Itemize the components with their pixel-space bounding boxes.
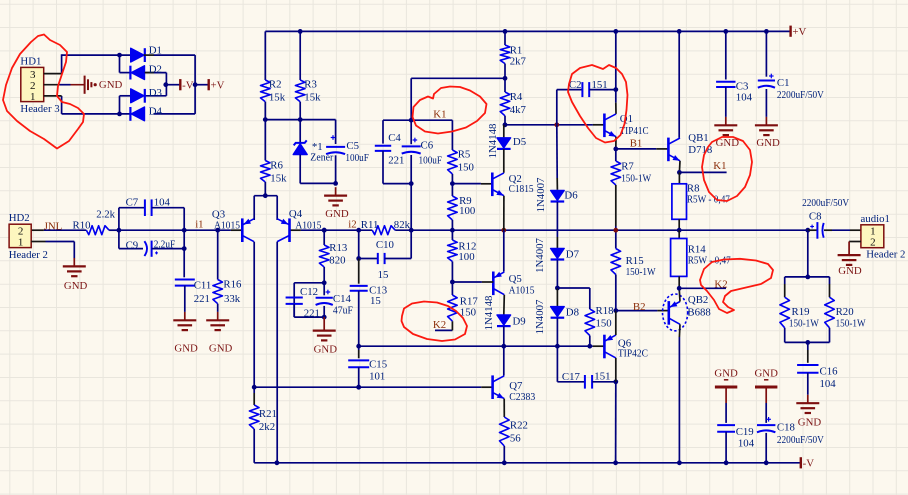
svg-text:15: 15 — [378, 269, 389, 281]
svg-text:K1: K1 — [433, 109, 446, 121]
svg-text:audio1: audio1 — [861, 213, 890, 225]
svg-text:C8: C8 — [809, 210, 822, 222]
svg-text:GND: GND — [99, 79, 123, 91]
svg-text:R4: R4 — [510, 91, 523, 103]
svg-text:B1: B1 — [630, 138, 643, 150]
svg-text:Header 2: Header 2 — [9, 249, 48, 261]
svg-text:2.2k: 2.2k — [96, 209, 115, 221]
svg-text:GND: GND — [714, 367, 738, 379]
svg-text:GND: GND — [798, 417, 822, 429]
svg-text:D6: D6 — [564, 190, 578, 202]
svg-text:47uF: 47uF — [333, 304, 353, 316]
svg-text:15k: 15k — [270, 172, 287, 184]
svg-text:150: 150 — [596, 317, 612, 329]
svg-text:+V: +V — [211, 80, 225, 92]
svg-text:QB2: QB2 — [688, 294, 708, 306]
svg-text:D3: D3 — [149, 87, 162, 99]
svg-text:104: 104 — [736, 91, 753, 103]
svg-text:GND: GND — [325, 208, 349, 220]
svg-text:2k7: 2k7 — [510, 55, 527, 67]
svg-text:C2383: C2383 — [509, 391, 535, 403]
svg-text:1N4007: 1N4007 — [534, 238, 546, 273]
svg-text:104: 104 — [738, 437, 755, 449]
svg-text:HD2: HD2 — [9, 212, 30, 224]
svg-text:D2: D2 — [149, 63, 162, 75]
svg-text:1N4007: 1N4007 — [535, 177, 547, 212]
svg-text:C10: C10 — [376, 239, 394, 251]
svg-text:2: 2 — [18, 225, 24, 237]
svg-text:C1: C1 — [777, 77, 790, 89]
svg-text:R5: R5 — [458, 148, 471, 160]
svg-text:HD1: HD1 — [20, 55, 41, 67]
svg-text:+V: +V — [792, 26, 806, 38]
svg-text:15: 15 — [370, 295, 381, 307]
svg-text:100: 100 — [458, 251, 474, 263]
svg-text:C18: C18 — [777, 421, 795, 433]
svg-text:GND: GND — [209, 342, 233, 354]
svg-text:150-1W: 150-1W — [836, 317, 867, 329]
svg-text:1: 1 — [30, 91, 36, 103]
svg-text:D9: D9 — [513, 316, 526, 328]
svg-text:A1015: A1015 — [509, 284, 535, 296]
svg-text:D7: D7 — [566, 249, 580, 261]
svg-text:150-1W: 150-1W — [789, 317, 820, 329]
svg-text:33k: 33k — [224, 293, 241, 305]
svg-text:C4: C4 — [388, 132, 401, 144]
svg-text:151: 151 — [592, 79, 608, 91]
svg-text:150: 150 — [458, 161, 474, 173]
svg-text:151: 151 — [594, 370, 610, 382]
svg-text:R11: R11 — [361, 219, 379, 231]
svg-text:2200uF/50V: 2200uF/50V — [777, 89, 824, 101]
svg-text:GND: GND — [838, 265, 862, 277]
svg-text:1N4007: 1N4007 — [534, 299, 546, 334]
svg-text:2: 2 — [870, 237, 876, 249]
svg-text:R6: R6 — [270, 160, 283, 172]
svg-text:JNL: JNL — [44, 220, 63, 232]
svg-text:i1: i1 — [195, 219, 203, 231]
svg-text:2200uF/50V: 2200uF/50V — [777, 434, 824, 446]
svg-text:221: 221 — [194, 293, 210, 305]
svg-text:104: 104 — [820, 378, 837, 390]
svg-text:R5W - 0,47: R5W - 0,47 — [687, 194, 731, 206]
svg-text:GND: GND — [314, 343, 338, 355]
svg-text:C6: C6 — [421, 139, 434, 151]
svg-text:B688: B688 — [687, 307, 710, 319]
svg-text:100uF: 100uF — [419, 154, 443, 166]
svg-text:R18: R18 — [596, 305, 614, 317]
svg-text:150-1W: 150-1W — [621, 173, 652, 185]
svg-text:GND: GND — [174, 342, 198, 354]
svg-text:820: 820 — [329, 254, 345, 266]
svg-text:B2: B2 — [633, 301, 646, 313]
svg-text:-V: -V — [803, 458, 815, 470]
svg-text:2200uF/50V: 2200uF/50V — [802, 197, 849, 209]
svg-text:R13: R13 — [329, 242, 347, 254]
svg-text:D1: D1 — [149, 45, 162, 57]
svg-text:C12: C12 — [300, 286, 318, 298]
svg-text:100uF: 100uF — [345, 152, 369, 164]
svg-text:56: 56 — [510, 432, 521, 444]
svg-text:C7: C7 — [126, 197, 139, 209]
svg-text:C11: C11 — [194, 279, 212, 291]
svg-text:TIP42C: TIP42C — [618, 348, 648, 360]
svg-text:C17: C17 — [562, 371, 581, 383]
svg-text:1: 1 — [18, 237, 24, 249]
svg-text:C16: C16 — [820, 365, 839, 377]
svg-text:221: 221 — [388, 154, 404, 166]
svg-text:R3: R3 — [304, 78, 317, 90]
svg-text:K2: K2 — [714, 278, 727, 290]
svg-text:GND: GND — [756, 137, 780, 149]
svg-text:GND: GND — [64, 280, 88, 292]
svg-text:C5: C5 — [346, 140, 359, 152]
svg-text:82k: 82k — [394, 219, 411, 231]
svg-text:-V: -V — [182, 80, 194, 92]
svg-text:Header 2: Header 2 — [866, 249, 905, 261]
svg-text:D4: D4 — [149, 106, 163, 118]
svg-text:K2: K2 — [433, 319, 446, 331]
svg-text:2.2uF: 2.2uF — [154, 238, 176, 250]
svg-text:R2: R2 — [269, 78, 282, 90]
svg-text:101: 101 — [369, 371, 385, 383]
svg-text:D5: D5 — [513, 136, 526, 148]
svg-text:R21: R21 — [259, 408, 277, 420]
svg-text:150-1W: 150-1W — [626, 266, 657, 278]
svg-text:2k2: 2k2 — [259, 421, 275, 433]
svg-text:GND: GND — [754, 367, 778, 379]
svg-text:K1: K1 — [713, 160, 726, 172]
svg-text:R16: R16 — [223, 278, 242, 290]
svg-text:A1015: A1015 — [214, 220, 240, 232]
svg-text:Header 3: Header 3 — [20, 103, 59, 115]
svg-text:15k: 15k — [269, 91, 286, 103]
svg-text:i2: i2 — [348, 219, 356, 231]
svg-text:C15: C15 — [369, 359, 387, 371]
svg-text:Q5: Q5 — [509, 273, 522, 285]
svg-text:C1815: C1815 — [509, 183, 534, 195]
svg-text:R17: R17 — [460, 295, 479, 307]
svg-text:D8: D8 — [566, 307, 579, 319]
svg-text:2: 2 — [30, 80, 36, 92]
svg-text:1: 1 — [870, 225, 876, 237]
svg-text:R19: R19 — [792, 306, 810, 318]
svg-text:QB1: QB1 — [688, 132, 708, 144]
svg-text:221: 221 — [304, 308, 320, 320]
svg-text:A1015: A1015 — [295, 219, 321, 231]
svg-text:Q7: Q7 — [509, 380, 523, 392]
svg-text:104: 104 — [154, 197, 171, 209]
svg-text:C9: C9 — [126, 239, 139, 251]
svg-text:R20: R20 — [836, 306, 854, 318]
svg-text:100: 100 — [459, 205, 475, 217]
svg-text:1N4148: 1N4148 — [487, 124, 499, 159]
svg-text:R22: R22 — [510, 419, 528, 431]
svg-text:R10: R10 — [73, 220, 91, 232]
svg-text:R7: R7 — [621, 160, 634, 172]
svg-text:C19: C19 — [736, 426, 754, 438]
svg-text:C14: C14 — [333, 293, 352, 305]
svg-text:4k7: 4k7 — [510, 104, 527, 116]
svg-text:1N4148: 1N4148 — [483, 296, 495, 331]
svg-text:15k: 15k — [304, 91, 321, 103]
